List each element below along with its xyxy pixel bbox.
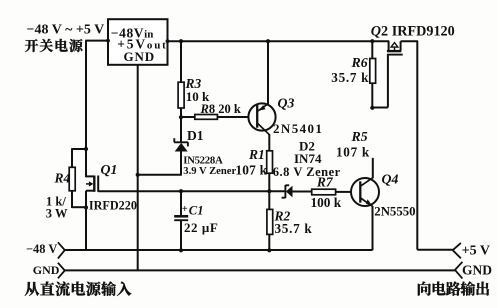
svg-text:100 k: 100 k: [311, 195, 342, 210]
svg-text:+5 V: +5 V: [462, 244, 490, 259]
svg-text:C1: C1: [189, 204, 204, 218]
svg-text:IRFD220: IRFD220: [89, 198, 137, 212]
svg-text:R8 20 k: R8 20 k: [200, 102, 241, 116]
svg-text:3.9 V Zener: 3.9 V Zener: [183, 166, 236, 177]
svg-text:107 k: 107 k: [336, 145, 370, 160]
svg-text:GND: GND: [124, 49, 156, 64]
svg-text:2N5550: 2N5550: [374, 204, 415, 218]
svg-text:D1: D1: [187, 128, 204, 143]
svg-text:−48 V: −48 V: [26, 242, 57, 256]
svg-text:107 k: 107 k: [235, 163, 267, 178]
svg-text:R1: R1: [248, 147, 265, 162]
svg-text:Q3: Q3: [278, 96, 295, 111]
svg-text:+: +: [182, 204, 188, 215]
svg-text:22 μF: 22 μF: [184, 220, 218, 235]
svg-text:2N5401: 2N5401: [273, 121, 323, 136]
svg-text:Q2 IRFD9120: Q2 IRFD9120: [371, 24, 455, 40]
svg-text:GND: GND: [33, 263, 60, 277]
svg-text:R4: R4: [54, 170, 71, 185]
svg-text:35.7 k: 35.7 k: [275, 221, 313, 236]
svg-text:IN74: IN74: [294, 151, 322, 166]
svg-text:Q1: Q1: [101, 162, 118, 177]
svg-text:3 W: 3 W: [46, 206, 68, 220]
svg-text:R5: R5: [351, 129, 368, 144]
svg-text:Q4: Q4: [382, 172, 399, 187]
svg-text:GND: GND: [462, 263, 492, 278]
svg-text:R7: R7: [316, 174, 334, 189]
svg-text:−48 V ~ +5 V: −48 V ~ +5 V: [27, 22, 105, 37]
svg-text:35.7 k: 35.7 k: [331, 70, 369, 85]
svg-text:IN5228A: IN5228A: [183, 155, 223, 167]
svg-text:R6: R6: [351, 55, 368, 70]
